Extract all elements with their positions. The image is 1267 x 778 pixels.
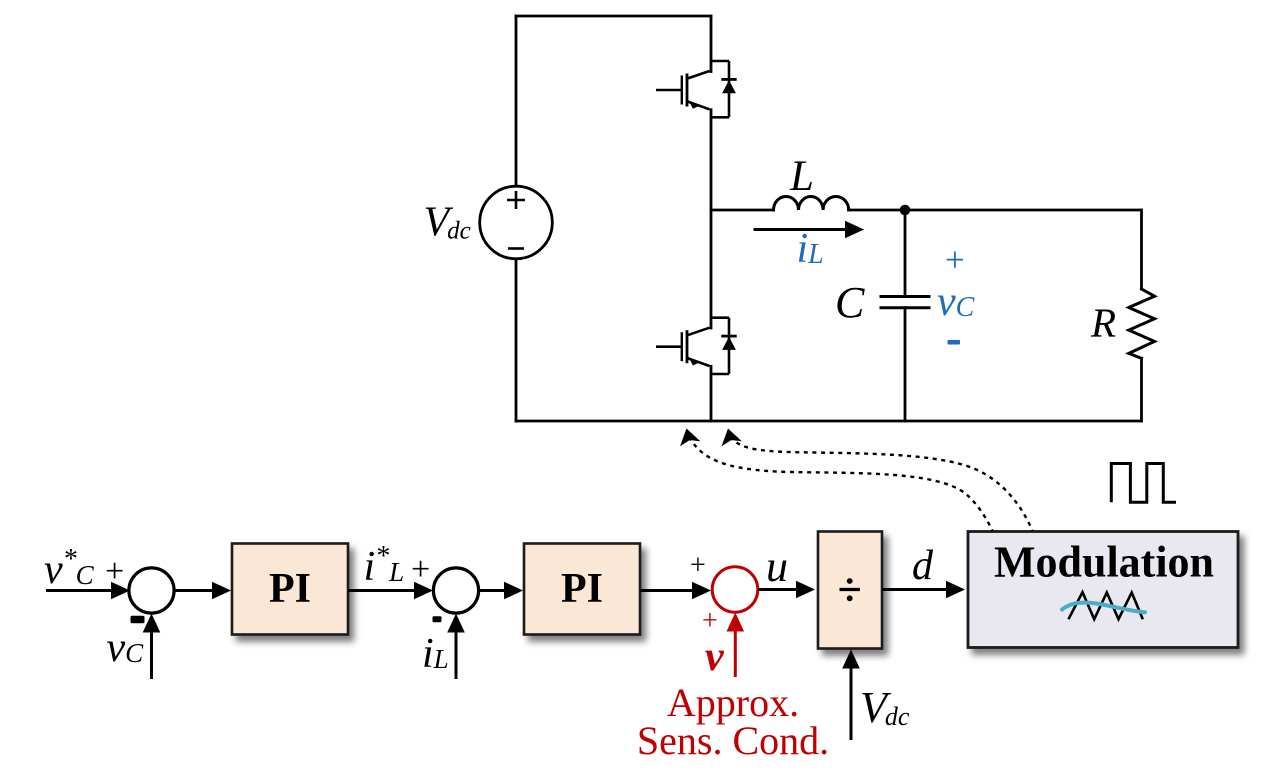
dashed arrowhead A	[677, 426, 701, 446]
wire feedback v red	[734, 629, 737, 677]
summing junction sum1	[129, 568, 174, 613]
svg-text:v*C: v*C	[44, 544, 95, 593]
wire feedback iL	[455, 629, 458, 679]
transistor Q2 emitter arrow	[689, 357, 700, 366]
diode D1 triangle	[722, 80, 736, 93]
svg-text:+: +	[945, 241, 965, 280]
svg-text:C: C	[835, 278, 865, 327]
resistor R zigzag	[1129, 289, 1155, 358]
summing junction sum2	[433, 568, 478, 613]
wire PI2 to sum3	[640, 589, 695, 592]
svg-text:+: +	[105, 553, 124, 590]
wire capacitor upper	[904, 210, 907, 296]
wire PI1 to sum2	[348, 589, 417, 592]
block Modulation	[968, 532, 1238, 648]
transistor Q2 IGBT	[656, 318, 737, 374]
wire right rail lower	[1140, 358, 1143, 421]
transistor Q1 IGBT	[656, 61, 737, 117]
label minus sum1	[131, 616, 145, 624]
wire left rail upper	[515, 16, 518, 186]
svg-text:vC: vC	[107, 625, 145, 671]
label minus sum2	[433, 616, 442, 622]
wire bottom rail	[516, 420, 1141, 423]
current arrow iL	[754, 228, 848, 231]
svg-text:R: R	[1090, 300, 1116, 346]
wire mid output	[711, 209, 774, 212]
wire input vC ref	[46, 589, 114, 592]
block PI2	[524, 544, 640, 635]
inductor L winding	[774, 196, 849, 210]
reference sine wave	[1062, 603, 1145, 613]
block divider	[818, 532, 882, 649]
summing junction sum3 red	[712, 567, 758, 613]
wire capacitor lower	[904, 308, 907, 421]
svg-text:iL: iL	[422, 631, 449, 677]
svg-text:iL: iL	[797, 226, 824, 272]
carrier triangle wave	[1069, 592, 1143, 619]
svg-text:Modulation: Modulation	[994, 538, 1214, 587]
block PI1	[232, 544, 348, 635]
wire switching leg lower	[710, 366, 713, 421]
wire inductor to node	[849, 209, 905, 212]
wire right rail upper	[1140, 210, 1143, 289]
svg-text:PI: PI	[561, 566, 603, 612]
svg-text:v: v	[705, 634, 725, 680]
svg-text:+: +	[690, 550, 706, 581]
svg-text:+: +	[411, 551, 430, 588]
wire switching leg middle	[710, 110, 713, 328]
node junction dot	[900, 205, 911, 216]
wire sum1 to PI1	[174, 589, 215, 592]
svg-text:Vdc: Vdc	[424, 200, 471, 246]
wire divider to modulation	[882, 588, 949, 591]
label divide symbol	[840, 578, 861, 601]
wire left rail lower	[515, 259, 518, 421]
transistor Q1 emitter arrow	[689, 100, 700, 109]
diode D2 triangle	[722, 337, 736, 350]
label minus vC	[948, 340, 961, 345]
dashed arrowhead B	[718, 426, 742, 446]
wire top rail	[516, 15, 711, 18]
svg-text:i*L: i*L	[364, 541, 405, 590]
capacitor C plates	[881, 297, 929, 308]
svg-text:L: L	[789, 153, 814, 200]
svg-text:vC: vC	[937, 279, 975, 325]
wire sum2 to PI2	[478, 589, 507, 592]
dashed gate signal curve A	[689, 437, 993, 531]
svg-text:PI: PI	[269, 566, 311, 612]
wire switching leg upper	[710, 16, 713, 72]
wire Vdc into divider	[850, 666, 853, 740]
pwm square wave icon	[1111, 464, 1176, 503]
svg-text:Sens. Cond.: Sens. Cond.	[637, 718, 829, 763]
svg-text:u: u	[766, 542, 788, 591]
svg-text:+: +	[702, 606, 718, 637]
svg-text:d: d	[912, 543, 934, 589]
wire feedback vC	[150, 629, 153, 679]
dashed gate signal curve B	[730, 437, 1033, 531]
voltage source Vdc circle	[480, 186, 553, 259]
svg-text:Vdc: Vdc	[860, 683, 910, 732]
wire sum3 to divider	[758, 588, 799, 591]
wire node to right rail	[905, 209, 1141, 212]
